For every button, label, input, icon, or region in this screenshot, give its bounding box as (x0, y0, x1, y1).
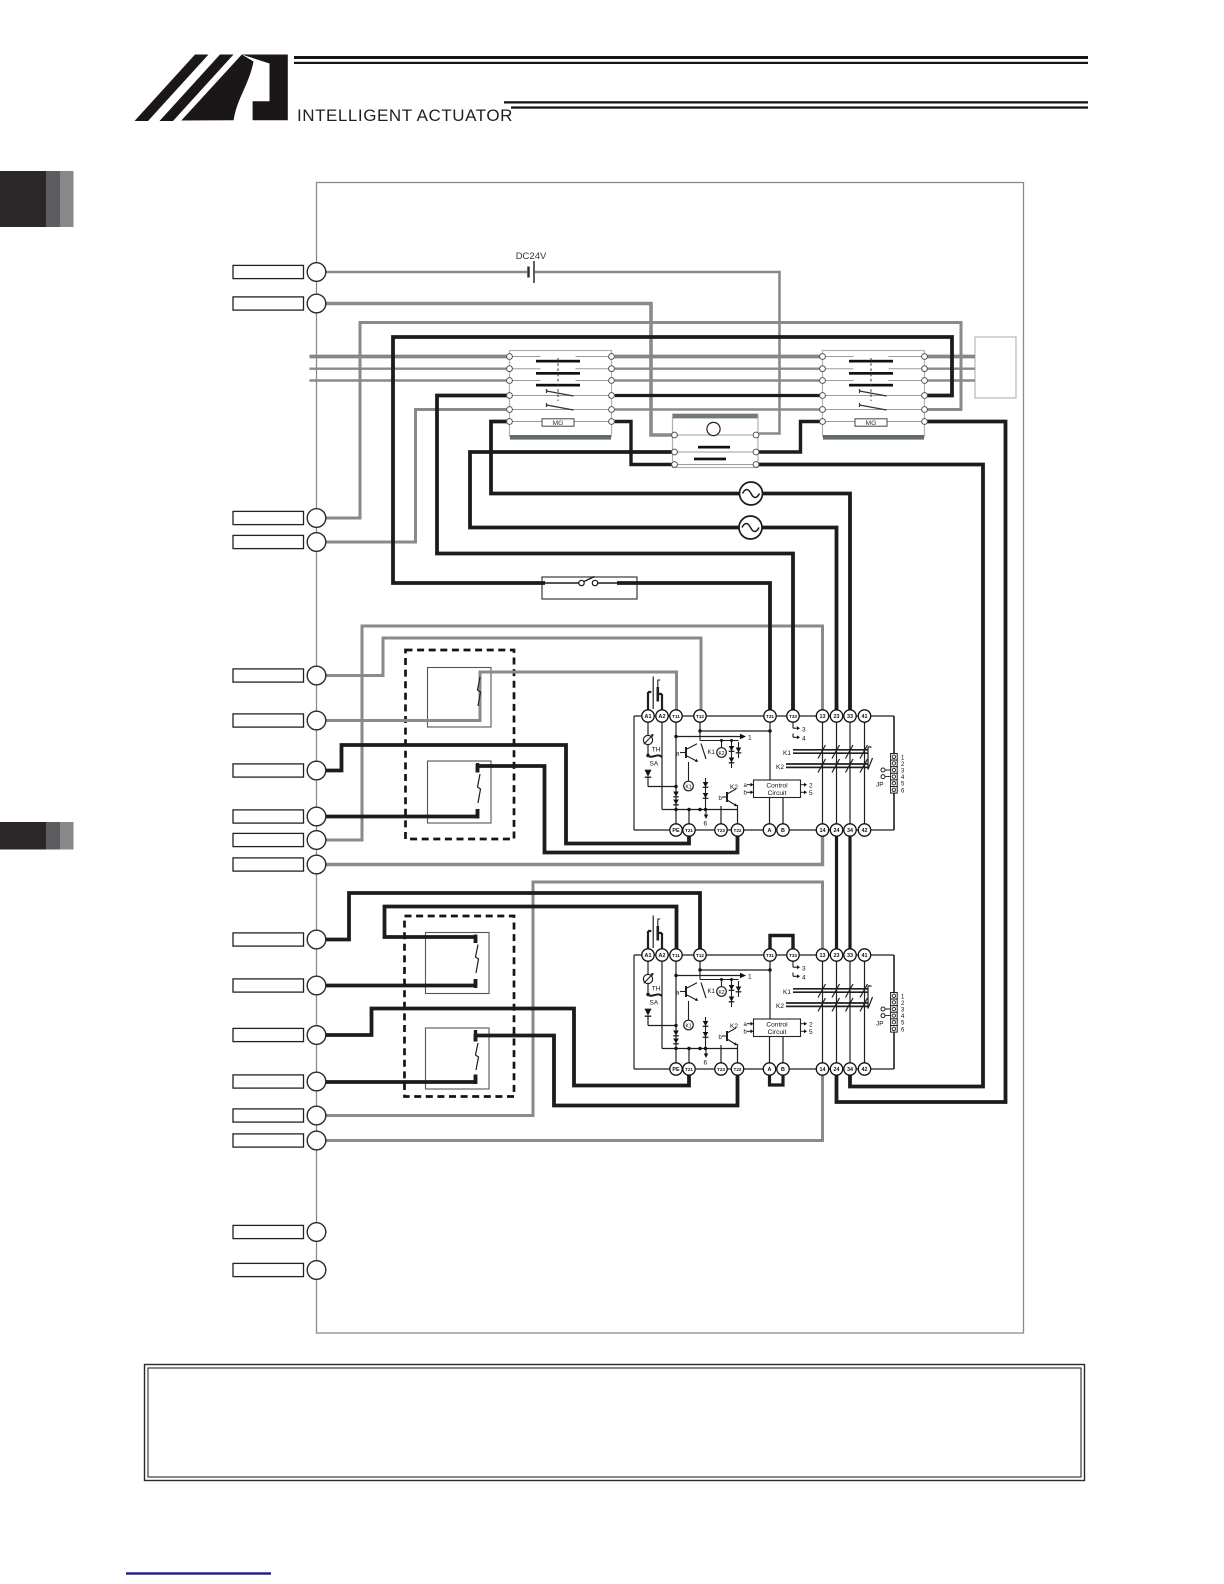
I/O label box 4 (233, 535, 304, 548)
contactor MG1 body (510, 351, 612, 437)
door switch 1 blade (478, 677, 481, 706)
door switch box 2 (lower, enclosure 1) (428, 761, 492, 823)
wire MG1-MG2 pole5 link (gray) (615, 408, 820, 410)
I/O label box 17 (233, 1225, 304, 1238)
I/O terminal 12 (307, 976, 326, 995)
header rule top line 1 (294, 56, 1088, 59)
left margin tab lower mid gray (46, 822, 60, 850)
wire door switch 4 to U2-T22 (black) (476, 1036, 738, 1106)
I/O label box 1 (233, 265, 304, 278)
wire DC24V minus from PLC output 2 to relay coil (gray) (325, 304, 671, 436)
wire breaker entry segment (black) (545, 582, 618, 584)
left margin tab upper mid gray (46, 171, 60, 227)
wire terminal y1115 to U2-13 (gray) (325, 882, 822, 1116)
svg-text:INTELLIGENT ACTUATOR: INTELLIGENT ACTUATOR (297, 106, 513, 125)
door switch 3 contacts and blade (476, 935, 479, 989)
breaker switch contacts (579, 577, 598, 586)
IAI logo slash 2 (160, 55, 234, 122)
wire terminal y840 to U1-13 (gray) (325, 626, 822, 840)
I/O label box 5 (233, 669, 304, 682)
I/O terminal 1 (307, 263, 326, 282)
I/O terminal 17 (307, 1223, 326, 1242)
wire MG1 pole6 left through AC source 1 to U1-33 (black) (491, 422, 850, 710)
wire MG1-MG2 pole4 link (black) (615, 394, 820, 397)
I/O label box 14 (233, 1075, 304, 1088)
wire terminal y720 through door switch 1 to U1-T11 (gray) (325, 672, 676, 721)
contactor MG2 body (823, 351, 925, 437)
left margin tab upper light gray (60, 171, 74, 227)
I/O terminal 4 (307, 533, 326, 552)
I/O terminal 7 (307, 761, 326, 780)
IAI logo slash 1 (135, 55, 209, 122)
wire terminal y864 to U1-14 (gray) (325, 836, 822, 864)
I/O terminal 2 (307, 294, 326, 313)
left margin tab lower light gray (60, 822, 74, 850)
door switch box 4 (lower, enclosure 2) (426, 1028, 490, 1089)
wire 3-phase L1 (gray, thick) (310, 355, 976, 359)
I/O terminal 11 (307, 930, 326, 949)
outer diagram frame (317, 183, 1024, 1334)
wire relay row2 right to MG2 pole6 left (black) (759, 422, 820, 453)
auxiliary relay block internals (672, 422, 759, 467)
motor connector box (top right) (975, 337, 1016, 398)
wire MG2 pole6 right to U2-24 (black) (837, 422, 1006, 1103)
door switch 4 contacts and blade (476, 1030, 479, 1084)
wire 3-phase L2 (gray) (310, 368, 976, 370)
AC source 1 (740, 482, 763, 505)
I/O terminal 14 (307, 1072, 326, 1091)
header rule lower line 2 (511, 106, 1088, 108)
wire U1-34 to U2-33 (black) (848, 836, 851, 949)
I/O label box 11 (233, 933, 304, 946)
I/O label box 8 (233, 810, 304, 823)
svg-text:MG: MG (553, 420, 564, 427)
contactor MG1 bottom shadow (510, 435, 611, 440)
wire door switch 3 to U2-T11 (black) (385, 907, 677, 949)
I/O label box 16 (233, 1134, 304, 1147)
I/O terminal 6 (307, 711, 326, 730)
caption box inner border (148, 1368, 1081, 1477)
I/O label box 18 (233, 1263, 304, 1276)
I/O terminal 5 (307, 666, 326, 685)
wire relay row3 right to U2-34 (black) (759, 465, 983, 1087)
I/O label box 3 (233, 511, 304, 524)
interlock dashed enclosure 1 (406, 650, 515, 839)
I/O terminal 10 (307, 855, 326, 874)
I/O terminal 18 (307, 1261, 326, 1280)
svg-text:MG: MG (866, 420, 877, 427)
wire U2 T31-T33 jumper (black) (770, 936, 793, 949)
I/O label box 10 (233, 858, 304, 871)
safety relay unit U2 (634, 916, 905, 1076)
contactor MG2 internals (820, 354, 928, 427)
auxiliary relay block body (673, 414, 759, 468)
I/O terminal 16 (307, 1131, 326, 1150)
wire U1-24 to U2-23 (black) (835, 836, 838, 949)
svg-text:DC24V: DC24V (516, 251, 547, 262)
wire terminal y1140 to U2-14 (gray) (325, 1075, 822, 1140)
I/O label box 7 (233, 764, 304, 777)
caption box outer border (145, 1365, 1085, 1481)
IAI logo A shape (242, 55, 288, 121)
wire terminal y939 to U2-T12 (black) (325, 893, 700, 949)
I/O terminal 8 (307, 807, 326, 826)
wire terminal y518 to MG2 pole5 right (gray) (325, 323, 961, 519)
I/O terminal 13 (307, 1026, 326, 1045)
header rule top line 2 (294, 62, 1088, 64)
I/O terminal 9 (307, 831, 326, 850)
wire terminal y816 into door switch 2 (black) (325, 809, 477, 817)
wire terminal y675 to U1-T12 (gray) (325, 638, 701, 710)
wire breaker feed and MG2 pole4 right (black) (393, 337, 952, 583)
battery DC24V symbol (529, 261, 535, 283)
safety relay unit U1 (634, 677, 905, 837)
wire U2 A-B jumper (black) (770, 1075, 784, 1085)
breaker switch box (542, 577, 637, 599)
I/O label box 13 (233, 1028, 304, 1041)
wire 3-phase L3 (gray) (310, 379, 976, 381)
IAI logo A leg (181, 55, 253, 121)
I/O terminal 15 (307, 1106, 326, 1125)
I/O label box 15 (233, 1109, 304, 1122)
contactor MG1 internals (507, 354, 615, 427)
wire terminal y770 to U1-T21 (black) (325, 745, 689, 844)
header rule lower line 1 (504, 101, 1088, 103)
left margin tab upper dark (0, 171, 46, 227)
footer blue rule (126, 1572, 271, 1574)
left margin tab lower dark (0, 822, 46, 850)
AC source 2 (739, 516, 762, 539)
wire terminal y542 to MG1 pole5 left (gray) (325, 410, 506, 543)
auxiliary relay block top shadow (673, 414, 758, 418)
I/O label box 9 (233, 833, 304, 846)
wire terminal y1035 to U2-T21 (black) (325, 1009, 689, 1086)
contactor MG2 bottom shadow (823, 435, 924, 440)
wire terminal y1081 into door switch 4 (black) (325, 1075, 475, 1083)
I/O label box 2 (233, 297, 304, 310)
I/O label box 12 (233, 979, 304, 992)
wire DC24V plus from PLC output 1 to relay coil (gray) (325, 271, 527, 274)
door switch 2 contacts and blade (478, 763, 481, 819)
wire door switch 2 to U1-T22 (black) (478, 766, 738, 853)
I/O terminal 3 (307, 509, 326, 528)
wire relay row2 left through AC source 2 to U1-23 (black) (470, 452, 837, 710)
wire MG1 pole6 right to relay row3 left (black) (615, 422, 672, 465)
interlock dashed enclosure 2 (405, 916, 515, 1097)
door switch box 3 (upper, enclosure 2) (426, 933, 490, 994)
door switch box 1 (upper, enclosure 1) (428, 668, 492, 728)
wire MG1 pole4 left to U1-T33 (black) (437, 396, 793, 710)
wire breaker to U1-T31 (black) (617, 583, 770, 710)
wire terminal y985 into door switch 3 (black) (325, 979, 475, 986)
I/O label box 6 (233, 714, 304, 727)
